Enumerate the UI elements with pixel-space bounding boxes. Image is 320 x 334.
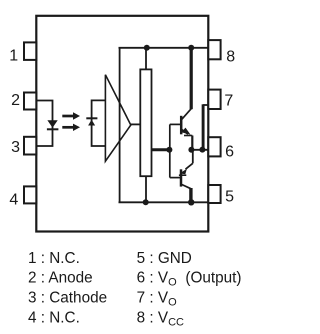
svg-text:8: 8: [226, 49, 235, 66]
svg-text:6: 6: [225, 144, 234, 161]
svg-text:7: 7: [224, 92, 233, 109]
svg-text:4 : N.C.: 4 : N.C.: [28, 309, 80, 326]
svg-text:3: 3: [11, 139, 20, 156]
svg-text:2 : Anode: 2 : Anode: [28, 270, 93, 287]
svg-text:4: 4: [9, 192, 18, 209]
svg-text:5 : GND: 5 : GND: [137, 250, 192, 267]
svg-text:3 : Cathode: 3 : Cathode: [28, 290, 107, 307]
svg-text:2: 2: [11, 92, 20, 109]
svg-text:8 : VCC: 8 : VCC: [137, 309, 184, 328]
svg-text:5: 5: [225, 189, 234, 206]
svg-text:7 : VO: 7 : VO: [137, 290, 177, 309]
svg-text:1 : N.C.: 1 : N.C.: [28, 250, 80, 267]
svg-text:1: 1: [9, 47, 18, 64]
svg-text:6 : VO (Output): 6 : VO (Output): [137, 270, 242, 289]
